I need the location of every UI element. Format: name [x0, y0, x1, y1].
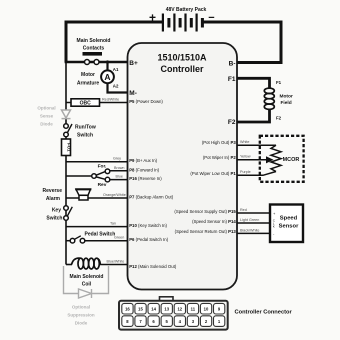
pin 7 — [135, 316, 146, 327]
svg-text:Run/Tow: Run/Tow — [75, 125, 96, 131]
svg-text:Reverse: Reverse — [43, 188, 63, 194]
controller U1 1510/1510A — [128, 43, 238, 290]
wire field to F2 — [237, 109, 270, 122]
main solenoid contacts SW — [77, 38, 111, 65]
svg-text:MCOR: MCOR — [283, 157, 300, 163]
svg-text:OBC: OBC — [80, 101, 92, 107]
svg-text:Blue: Blue — [116, 174, 123, 178]
reverse alarm LS1 — [43, 188, 92, 202]
svg-text:Contacts: Contacts — [83, 45, 105, 51]
svg-text:P12 (Main Solenoid Out): P12 (Main Solenoid Out) — [129, 264, 177, 269]
svg-text:Black/White: Black/White — [240, 228, 259, 232]
pin 12 — [174, 303, 185, 314]
svg-text:Motor: Motor — [280, 93, 293, 99]
wire Green pedal to P6 — [85, 240, 128, 242]
svg-text:FU1: FU1 — [66, 143, 71, 152]
svg-text:Blue/White: Blue/White — [107, 260, 125, 264]
pin 10 — [200, 303, 211, 314]
speed sensor module — [270, 205, 303, 243]
svg-text:P5 (Power Down): P5 (Power Down) — [129, 99, 163, 104]
key switch SW — [46, 206, 72, 222]
svg-text:Suppression: Suppression — [67, 312, 95, 317]
pin 11 — [187, 303, 198, 314]
svg-text:Red/White: Red/White — [102, 98, 119, 102]
wire Light Green P14 to sensor — [237, 222, 270, 224]
pin 4 — [174, 316, 185, 327]
svg-text:12: 12 — [177, 307, 182, 312]
wire Brown forward to P8 — [110, 170, 128, 172]
svg-text:Red: Red — [240, 208, 247, 212]
wire Blue/White coil to P12 — [100, 264, 128, 266]
left rail wire (battery + bus) — [65, 62, 67, 124]
svg-text:A: A — [104, 72, 110, 82]
svg-text:F2: F2 — [228, 119, 236, 126]
svg-text:P16 (Reverse In): P16 (Reverse In) — [129, 176, 162, 181]
svg-text:Switch: Switch — [77, 133, 93, 139]
svg-text:Green: Green — [114, 236, 124, 240]
svg-text:A1: A1 — [113, 67, 119, 72]
pin 14 — [148, 303, 159, 314]
controller connector J1 — [119, 297, 292, 330]
motor field coil L2 — [264, 80, 293, 121]
wire F1 to motor field — [237, 78, 270, 88]
svg-text:(Speed Sensor In) P14: (Speed Sensor In) P14 — [192, 219, 236, 224]
wire Orange/White alarm to P7 — [66, 197, 128, 199]
main solenoid coil L1 — [66, 258, 103, 288]
svg-text:Optional: Optional — [37, 106, 55, 111]
wire junction to armature A1 — [106, 62, 108, 71]
battery BT1 48V pack — [149, 7, 215, 32]
svg-text:Optional: Optional — [72, 304, 90, 309]
svg-text:Key: Key — [52, 207, 61, 213]
svg-text:P9 (B+ Aux In): P9 (B+ Aux In) — [129, 158, 157, 163]
run/tow switch SW — [64, 124, 96, 139]
svg-text:Diode: Diode — [75, 320, 88, 325]
optional sense diode D1 — [62, 110, 71, 119]
svg-text:For.: For. — [98, 163, 107, 169]
motor armature M1 — [77, 67, 119, 89]
wire rail to OBC — [66, 102, 71, 104]
svg-text:Speed: Speed — [280, 215, 298, 221]
wire rail to common — [66, 175, 92, 177]
pin 8 — [122, 316, 133, 327]
svg-text:(Pot Wiper In) P2: (Pot Wiper In) P2 — [203, 155, 237, 160]
svg-text:Brown: Brown — [114, 166, 124, 170]
svg-text:Switch: Switch — [46, 216, 62, 222]
svg-text:(Pot High Out) P3: (Pot High Out) P3 — [202, 140, 237, 145]
svg-text:15: 15 — [138, 307, 143, 312]
svg-text:Motor: Motor — [81, 72, 95, 78]
svg-text:Pedal Switch: Pedal Switch — [85, 232, 116, 238]
svg-text:Main Solenoid: Main Solenoid — [77, 38, 111, 44]
wire Black/White P13 to sensor — [237, 232, 270, 234]
svg-text:Main Solenoid: Main Solenoid — [70, 274, 104, 280]
svg-text:White: White — [240, 140, 249, 144]
wire battery plus to left rail — [66, 22, 162, 62]
MCOR throttle box — [260, 136, 304, 182]
svg-text:P7 (Backup Alarm Out): P7 (Backup Alarm Out) — [129, 194, 174, 199]
svg-text:(Speed Sensor Return Out) P13: (Speed Sensor Return Out) P13 — [175, 229, 237, 234]
svg-text:Yellow: Yellow — [240, 155, 251, 159]
pin 13 — [161, 303, 172, 314]
svg-text:Purple: Purple — [240, 170, 251, 174]
OBC module — [71, 99, 100, 107]
svg-text:1510/1510A: 1510/1510A — [157, 53, 207, 63]
svg-text:16: 16 — [125, 307, 130, 312]
wire switch to fuse — [65, 137, 67, 139]
wire Red P15 to sensor — [237, 212, 270, 214]
svg-text:14: 14 — [151, 307, 156, 312]
svg-text:F1: F1 — [228, 76, 236, 83]
pedal switch SW — [66, 232, 115, 243]
fuse FU1 — [62, 139, 72, 156]
svg-text:B+: B+ — [129, 60, 138, 67]
wire White P3 to MCOR — [237, 144, 276, 146]
svg-text:M-: M- — [129, 90, 137, 97]
svg-text:Alarm: Alarm — [46, 196, 61, 202]
svg-text:Orange/White: Orange/White — [103, 193, 126, 197]
wiper arrow — [267, 159, 269, 161]
svg-text:Grey: Grey — [113, 157, 121, 161]
forward/reverse switch SW — [66, 163, 110, 188]
svg-text:Rev: Rev — [98, 182, 107, 188]
svg-text:Diode: Diode — [40, 122, 53, 127]
wire OBC to P5, Red/White — [100, 102, 128, 104]
wire Blue reverse to P16 — [110, 179, 128, 181]
svg-text:B-: B- — [229, 61, 236, 68]
svg-text:Light Green: Light Green — [240, 218, 259, 222]
svg-text:Tan: Tan — [110, 222, 116, 226]
svg-text:P10 (Key Switch In): P10 (Key Switch In) — [129, 223, 167, 228]
svg-text:48V Battery Pack: 48V Battery Pack — [166, 7, 207, 13]
potentiometer R1 — [271, 145, 281, 171]
svg-text:Field: Field — [281, 100, 292, 106]
svg-text:Controller Connector: Controller Connector — [235, 310, 293, 316]
pin 6 — [148, 316, 159, 327]
pin 3 — [187, 316, 198, 327]
svg-text:Sensor: Sensor — [279, 223, 299, 229]
wire Tan to P10 — [66, 226, 128, 228]
wire armature A2 to M- — [108, 83, 128, 92]
svg-text:Armature: Armature — [77, 80, 99, 86]
optional suppression diode D2 — [64, 266, 109, 298]
left rail wire below fuse — [65, 156, 67, 265]
svg-text:F1: F1 — [276, 80, 282, 85]
svg-text:10: 10 — [204, 307, 209, 312]
svg-text:Controller: Controller — [160, 64, 203, 74]
svg-text:F2: F2 — [276, 116, 282, 121]
pin 2 — [200, 316, 211, 327]
node junction armature tap — [106, 60, 109, 63]
wire rail to B+ (main solenoid contact wire) — [65, 61, 128, 63]
wire Yellow P2 wiper — [237, 159, 267, 161]
pin 15 — [135, 303, 146, 314]
svg-text:P8 (Forward In): P8 (Forward In) — [129, 167, 159, 172]
wire Purple P1 to MCOR — [237, 172, 276, 176]
svg-text:(Pot Wiper Low Out) P1: (Pot Wiper Low Out) P1 — [190, 171, 236, 176]
svg-text:11: 11 — [191, 307, 196, 312]
svg-text:(Speed Sensor Supply Out) P15: (Speed Sensor Supply Out) P15 — [174, 209, 236, 214]
wire battery minus to B- — [204, 22, 282, 63]
wire Grey to P9 — [66, 161, 128, 163]
svg-text:A2: A2 — [113, 83, 119, 88]
svg-text:13: 13 — [164, 307, 169, 312]
svg-text:Coil: Coil — [82, 282, 92, 288]
svg-text:Sense: Sense — [40, 114, 54, 119]
pin 16 — [122, 303, 133, 314]
svg-text:P6 (Pedal Switch In): P6 (Pedal Switch In) — [129, 237, 169, 242]
pin 9 — [214, 303, 225, 314]
pin 5 — [161, 316, 172, 327]
pin 1 — [214, 316, 225, 327]
